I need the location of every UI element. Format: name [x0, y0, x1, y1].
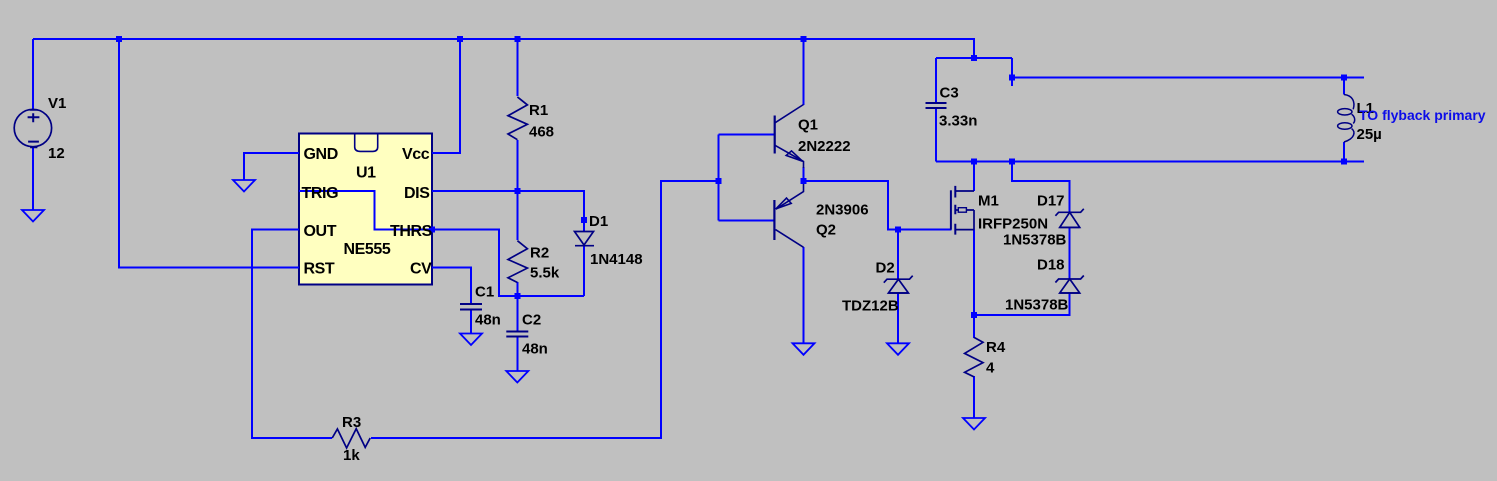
svg-text:M1: M1	[978, 193, 999, 210]
wire Q2 base lead	[718, 219, 774, 221]
svg-text:NE555: NE555	[344, 241, 391, 258]
wire CV to C1	[432, 268, 471, 304]
svg-text:Q2: Q2	[816, 222, 836, 239]
wire top rail from V1 to C3 corner	[33, 39, 974, 58]
node at D17 branch rail	[1009, 159, 1015, 165]
svg-text:12: 12	[48, 145, 65, 162]
ground (Q2 collector)	[793, 343, 815, 355]
wire D17 to D18	[1069, 227, 1071, 279]
wire R3 right to base node	[371, 181, 718, 438]
svg-text:THRS: THRS	[390, 223, 433, 240]
svg-text:R1: R1	[529, 102, 548, 119]
node on rail at R1 branch	[514, 36, 520, 42]
wire R4 to ground	[973, 376, 975, 418]
wire lower rail C3 to L1 bottom	[936, 161, 1364, 163]
transistor M1	[951, 186, 974, 235]
svg-text:D1: D1	[589, 213, 608, 230]
svg-text:5.5k: 5.5k	[530, 265, 560, 282]
wire Q2 collector to ground	[803, 247, 805, 343]
wire D1 cathode down	[583, 246, 585, 296]
wire GND pin to ground	[244, 153, 299, 180]
svg-text:RST: RST	[304, 261, 335, 278]
wire node to D17	[1012, 162, 1070, 213]
svg-text:48n: 48n	[522, 341, 548, 358]
svg-text:48n: 48n	[475, 312, 501, 329]
svg-text:OUT: OUT	[304, 223, 337, 240]
wire C2 bottom to ground	[516, 337, 518, 371]
svg-text:R2: R2	[530, 245, 549, 262]
wire to L1 top	[1012, 77, 1364, 79]
svg-text:IRFP250N: IRFP250N	[978, 216, 1048, 233]
ground (C1)	[460, 334, 482, 346]
node at L1 top pin	[1341, 75, 1347, 81]
svg-text:DIS: DIS	[404, 185, 430, 202]
node at L1 top branch	[1009, 75, 1015, 81]
node at C3 top corner	[971, 55, 977, 61]
wire DIS net to D1	[432, 191, 584, 231]
svg-text:4: 4	[986, 360, 995, 377]
inductor L1	[1338, 95, 1355, 143]
svg-text:C1: C1	[475, 284, 494, 301]
ground (V1)	[22, 210, 44, 222]
svg-text:CV: CV	[410, 261, 432, 278]
svg-text:C3: C3	[940, 85, 959, 102]
svg-text:R3: R3	[342, 414, 361, 431]
diode D1	[575, 232, 595, 246]
zener diode D17	[1055, 209, 1083, 228]
ground (C2)	[506, 371, 528, 383]
wire Q1 collector to rail	[803, 39, 805, 105]
wire Q1 emitter to node	[803, 167, 805, 181]
capacitor C3	[926, 103, 947, 108]
wire base bus vertical	[717, 135, 719, 221]
wire L1 bottom stub	[1343, 142, 1345, 162]
wire source node to R4	[973, 315, 975, 338]
svg-text:GND: GND	[304, 146, 338, 163]
wire V1 top stub	[32, 39, 34, 110]
node at base bus	[715, 178, 721, 184]
wire OUT to R3 left	[252, 230, 332, 439]
svg-text:TO flyback primary: TO flyback primary	[1359, 107, 1486, 123]
svg-text:V1: V1	[48, 95, 66, 112]
resistor R2	[508, 241, 527, 283]
wire emitter node to M1 gate	[804, 181, 952, 230]
wire THRS to timing node	[432, 230, 584, 297]
node at D2 branch	[895, 227, 901, 233]
svg-text:Q1: Q1	[798, 117, 818, 134]
svg-text:TDZ12B: TDZ12B	[842, 298, 899, 315]
wire C3 lower stub	[935, 109, 937, 162]
wire V1 bottom stub	[32, 148, 34, 211]
node on rail at Q1 collector	[801, 36, 807, 42]
svg-text:R4: R4	[986, 339, 1006, 356]
svg-text:1N5378B: 1N5378B	[1003, 232, 1067, 249]
zener diode D2	[884, 276, 913, 293]
wire D2 anode to ground	[897, 293, 899, 343]
wire Vcc to rail	[432, 39, 460, 153]
node at D1 anode	[581, 217, 587, 223]
wire Q1 base lead	[718, 134, 774, 136]
transistor Q2	[774, 184, 803, 247]
svg-text:25µ: 25µ	[1357, 126, 1382, 143]
wire L1 top stub	[1343, 78, 1345, 95]
transistor Q1	[775, 105, 804, 169]
wire rail to R1	[516, 39, 518, 96]
capacitor C2	[506, 332, 528, 337]
wire M1 drain to rail	[973, 162, 975, 192]
svg-text:TRIG: TRIG	[302, 185, 339, 202]
wire C3 top link	[936, 57, 1012, 59]
node at M1 drain rail	[971, 159, 977, 165]
resistor R1	[508, 97, 527, 140]
wire RST net vertical	[119, 39, 299, 268]
svg-text:1N5378B: 1N5378B	[1005, 297, 1069, 314]
node on rail at Vcc branch	[457, 36, 463, 42]
node on rail at RST branch	[116, 36, 122, 42]
ground (U1 GND pin)	[233, 180, 255, 192]
svg-text:Vcc: Vcc	[402, 146, 430, 163]
wire stub below node at 1012	[1011, 58, 1013, 86]
node at timing cap junction	[514, 293, 520, 299]
svg-text:1N4148: 1N4148	[590, 251, 643, 268]
svg-text:D2: D2	[876, 260, 895, 277]
wire R2 bottom stub	[516, 282, 518, 331]
svg-text:2N2222: 2N2222	[798, 138, 851, 155]
voltage source V1	[14, 109, 51, 147]
svg-text:C2: C2	[522, 312, 541, 329]
node at emitter junction	[801, 178, 807, 184]
wire D18 to source node	[974, 293, 1070, 315]
capacitor C1	[460, 304, 482, 310]
ground (D2)	[887, 343, 909, 355]
wire C1 bottom to ground	[470, 311, 472, 334]
wire R1 to R2 through DIS node	[516, 140, 518, 240]
svg-text:3.33n: 3.33n	[939, 113, 977, 130]
svg-text:1k: 1k	[343, 447, 360, 464]
node at M1 source / R4	[971, 312, 977, 318]
svg-text:D17: D17	[1037, 193, 1065, 210]
node at L1 bottom pin	[1341, 159, 1347, 165]
ground (R4)	[963, 418, 985, 430]
svg-text:D18: D18	[1037, 257, 1065, 274]
resistor R4	[965, 337, 983, 377]
zener diode D18	[1055, 276, 1083, 294]
node at DIS R1/R2 junction	[514, 188, 520, 194]
svg-text:U1: U1	[356, 165, 376, 182]
node at THRS pin	[429, 227, 435, 233]
wire M1 source down	[973, 230, 975, 315]
wire TRIG to THRS inner	[299, 191, 432, 230]
svg-text:2N3906: 2N3906	[816, 202, 869, 219]
resistor R3	[332, 429, 370, 448]
wire C3 upper stub	[935, 58, 937, 102]
svg-text:468: 468	[529, 124, 554, 141]
op-amp U1 (NE555 body box)	[299, 134, 432, 285]
wire D2 cathode stub	[897, 230, 899, 280]
